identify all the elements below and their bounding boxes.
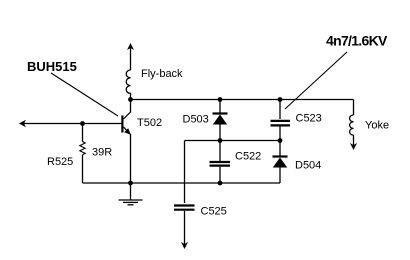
node C523/D504 junction (278, 138, 283, 143)
svg-text:Yoke: Yoke (365, 120, 389, 132)
node C522 bottom junction (218, 181, 223, 186)
wire top rail (131, 99, 354, 101)
transistor T502 (121, 100, 131, 184)
svg-text:T502: T502 (137, 117, 162, 129)
capacitor C525 (174, 206, 195, 250)
svg-text:C525: C525 (201, 206, 227, 218)
pointer line from BUH515 to T502 (51, 73, 118, 116)
node emitter/ground junction (128, 181, 133, 186)
svg-text:BUH515: BUH515 (27, 59, 77, 74)
svg-text:D503: D503 (183, 114, 209, 126)
svg-text:C522: C522 (235, 151, 261, 163)
node D503 top junction (218, 97, 223, 102)
inductor Fly-back (126, 43, 134, 100)
node collector junction (128, 97, 133, 102)
ground (119, 183, 143, 205)
capacitor C522 (210, 141, 231, 184)
node base junction (80, 121, 85, 126)
svg-text:Fly-back: Fly-back (141, 68, 183, 80)
node C523 top junction (278, 97, 283, 102)
svg-text:C523: C523 (296, 113, 322, 125)
capacitor C523 (271, 100, 291, 141)
node D503/C522 middle junction (218, 138, 223, 143)
wire C525 branch (184, 141, 186, 204)
diode D504 (273, 141, 288, 184)
svg-text:4n7/1.6KV: 4n7/1.6KV (326, 33, 388, 49)
inductor Yoke (350, 100, 357, 151)
diode D503 (213, 100, 228, 141)
svg-text:D504: D504 (295, 160, 321, 172)
pointer line from 4n7/1.6KV to C523 (285, 52, 347, 109)
wire bottom rail (83, 182, 281, 184)
resistor R525 (80, 124, 85, 184)
wire middle rail (185, 140, 281, 142)
svg-text:39R: 39R (92, 147, 112, 159)
svg-text:R525: R525 (47, 156, 73, 168)
wire base (left) with arrow (19, 120, 122, 127)
